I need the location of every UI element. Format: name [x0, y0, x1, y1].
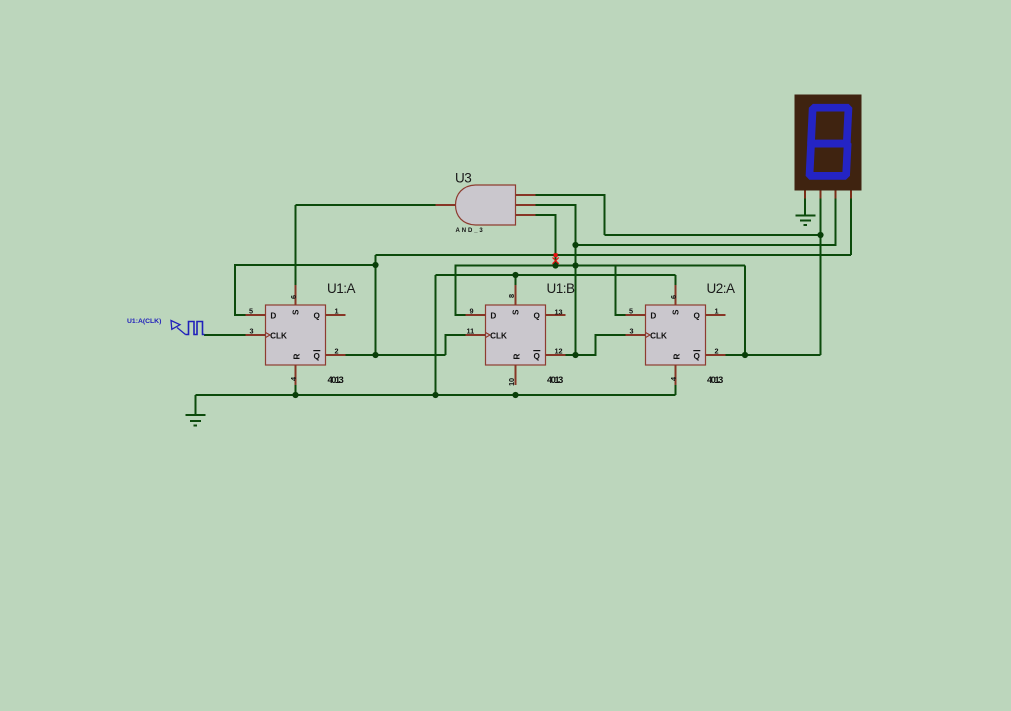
wire: U2:A Q-bar row to display pin 2 drop	[726, 354, 821, 356]
wire: U1:A S riser to AND output	[295, 205, 297, 285]
svg-text:Q: Q	[314, 352, 321, 361]
svg-text:R: R	[293, 354, 302, 360]
svg-text:R: R	[673, 354, 682, 360]
wire: drop x=745 to U2:A Q-bar net	[744, 266, 746, 356]
junction U1:B Q-bar row at x=575.5	[572, 352, 578, 358]
ground (bottom left)	[186, 415, 206, 426]
wire: S bus drop to ground bus	[435, 275, 437, 395]
svg-text:5: 5	[629, 307, 633, 316]
junction bus y=265.5 at x=575.5	[572, 262, 578, 268]
wire: ground bus y=395	[196, 394, 676, 396]
wire: AND bottom input drop x=555.5	[536, 215, 556, 266]
junction at U1:A Q-bar row	[372, 352, 378, 358]
svg-text:U1:A(CLK): U1:A(CLK)	[127, 318, 161, 325]
svg-text:D: D	[270, 311, 276, 320]
wire: U1:B S drop	[515, 275, 517, 285]
svg-text:4013: 4013	[328, 375, 344, 386]
svg-text:S: S	[672, 309, 681, 315]
svg-text:2: 2	[715, 347, 719, 356]
wire: S bus y=275	[436, 274, 676, 276]
wire: U1:B Q-bar row to U2:A CLK	[566, 335, 626, 355]
svg-text:2: 2	[335, 347, 339, 356]
svg-text:Q: Q	[534, 311, 541, 320]
junction at U1:A D/Q-bar riser top	[372, 262, 378, 268]
wire: U1:B D riser and bus y=265.5	[456, 266, 746, 316]
svg-text:CLK: CLK	[650, 331, 667, 340]
wire: bus y=245 to display pin 3	[576, 199, 836, 246]
wire: riser to U1:B CLK	[446, 335, 466, 355]
flip-flop U1:B (4013)	[466, 285, 566, 385]
svg-text:3: 3	[630, 327, 634, 336]
svg-text:9: 9	[470, 307, 474, 316]
wire: U2:A D riser	[616, 266, 626, 316]
junction S-bus drop on ground bus	[432, 392, 438, 398]
svg-text:D: D	[490, 311, 496, 320]
junction U1:B R on ground bus	[512, 392, 518, 398]
svg-text:3: 3	[250, 327, 254, 336]
svg-text:Q: Q	[314, 311, 321, 320]
svg-text:U3: U3	[455, 171, 471, 186]
svg-text:4013: 4013	[707, 375, 723, 386]
svg-text:U2:A: U2:A	[707, 281, 736, 296]
svg-text:CLK: CLK	[270, 331, 287, 340]
display pin 3	[835, 191, 837, 199]
wire: AND top input run	[536, 195, 605, 235]
generator arrow	[171, 321, 180, 330]
wire: U1:A R drop	[295, 385, 297, 395]
op-amp none / and-gate U3 (AND_3, mirrored)	[436, 185, 536, 225]
wire: vertical feedback riser x=375.5	[375, 255, 377, 355]
7-segment display	[795, 95, 862, 199]
wire: display pin 4 riser	[850, 199, 852, 256]
svg-text:R: R	[513, 354, 522, 360]
svg-text:13: 13	[555, 308, 563, 317]
svg-text:6: 6	[669, 295, 678, 299]
junction bus y=245 at x=575.5	[572, 242, 578, 248]
wire: drop to ground symbol	[195, 395, 197, 415]
display pin 1	[804, 191, 806, 199]
display pin 2	[820, 191, 822, 199]
junction U1:B S on S-bus	[512, 272, 518, 278]
digit 8: top loop (segments a,b,g,f)	[811, 108, 849, 144]
wire: U2:A S drop	[675, 275, 677, 285]
wire: U1:A Q-bar row	[345, 354, 446, 356]
svg-text:S: S	[512, 309, 521, 315]
junction AND bottom input on bus y=265.5	[552, 262, 558, 268]
junction display pin2 on bus y=235	[817, 232, 823, 238]
svg-text:4013: 4013	[547, 375, 563, 386]
svg-text:5: 5	[249, 307, 253, 316]
junction U1:A R on ground bus	[292, 392, 298, 398]
svg-text:D: D	[650, 311, 656, 320]
wire: U2:A R riser	[675, 385, 677, 395]
svg-text:6: 6	[289, 295, 298, 299]
svg-text:U1:B: U1:B	[547, 281, 576, 296]
ground (below display)	[796, 216, 816, 226]
svg-text:1: 1	[715, 307, 719, 316]
svg-text:11: 11	[467, 327, 475, 336]
svg-text:Q: Q	[694, 311, 701, 320]
svg-text:CLK: CLK	[490, 331, 507, 340]
clock generator U1:A(CLK)	[127, 318, 205, 335]
display pin 4	[850, 191, 852, 199]
red wire-end marker on bus y=255	[553, 253, 559, 264]
svg-text:S: S	[292, 309, 301, 315]
digit 8: bottom loop (segments g,c,d,e)	[809, 144, 847, 176]
svg-text:U1:A: U1:A	[327, 281, 356, 296]
wire: U1:A D feedback (D pin to node at x=375.5 y=265)	[235, 265, 376, 315]
wire: clock source to U1:A CLK	[204, 334, 246, 336]
svg-text:8: 8	[507, 294, 516, 298]
wire: bus y=235 (AND top input to display pin 2)	[605, 234, 821, 236]
wire: display pin 2 vertical drop	[820, 199, 822, 356]
wire: AND gate output run	[296, 204, 436, 206]
svg-text:Q: Q	[694, 352, 701, 361]
flip-flop U2:A (4013)	[626, 285, 726, 385]
wire: AND middle input drop x=575.5	[536, 205, 576, 355]
svg-text:12: 12	[555, 347, 563, 356]
junction U2:A Q-bar row at x=745	[742, 352, 748, 358]
flip-flop U1:A (4013)	[246, 285, 346, 385]
wire: bus y=255 (U1:A Q-bar net to display pin 4)	[376, 254, 852, 256]
svg-text:AND_3: AND_3	[456, 228, 485, 234]
wire: display pin 1 to ground	[804, 199, 806, 216]
clock waveform glyph	[186, 322, 205, 335]
svg-text:1: 1	[335, 307, 339, 316]
svg-text:Q: Q	[534, 352, 541, 361]
svg-text:10: 10	[507, 378, 516, 386]
